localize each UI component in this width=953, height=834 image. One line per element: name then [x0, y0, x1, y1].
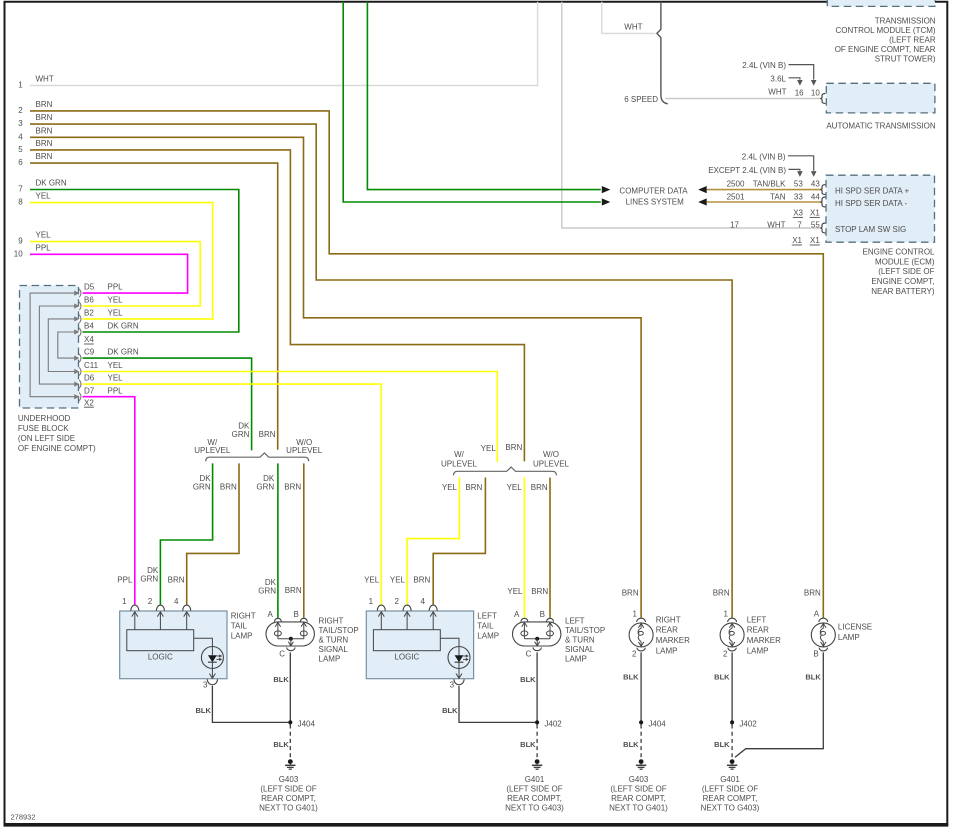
connector name X2 [84, 398, 94, 407]
svg-text:UPLEVEL: UPLEVEL [286, 446, 323, 455]
right tail lamp LED [201, 647, 223, 669]
label PPL (wire 10) [36, 243, 52, 252]
left tail/stop & turn signal lamp pin A label [514, 610, 520, 619]
svg-text:TAIL/STOP: TAIL/STOP [319, 626, 359, 635]
svg-text:YEL: YEL [507, 587, 523, 596]
label DK GRN at right tail/stop pin A [258, 578, 276, 595]
label BLK (license lamp) [805, 673, 821, 682]
svg-text:1: 1 [18, 81, 23, 90]
left rear marker lamp bottom connector [728, 648, 736, 651]
svg-text:2.4L (VIN B): 2.4L (VIN B) [742, 61, 786, 70]
svg-text:REAR COMPT,: REAR COMPT, [611, 794, 666, 803]
svg-text:33: 33 [794, 192, 803, 201]
svg-text:YEL: YEL [481, 444, 497, 453]
pin D7 wire PPL (to right tail lamp pin 1) [83, 397, 135, 605]
svg-text:LAMP: LAMP [231, 632, 253, 641]
svg-text:1: 1 [723, 610, 728, 619]
label STOP LAM SW SIG [835, 225, 906, 234]
pin B4 label [84, 322, 139, 331]
fuse block internal wire D5-D7 [30, 293, 76, 397]
wire 2500 TAN/BLK (hi spd ser data +) [707, 189, 823, 191]
wire BLK left tail/stop pin C to J402 [536, 652, 538, 722]
svg-text:6 SPEED: 6 SPEED [624, 95, 658, 104]
label BRN at right tail lamp pin 4 [168, 575, 185, 584]
svg-text:BRN: BRN [804, 588, 821, 597]
svg-text:TAIL/STOP: TAIL/STOP [565, 626, 605, 635]
svg-text:B4: B4 [84, 322, 94, 331]
label BRN below splice 2 (right) [531, 483, 548, 492]
left tail/stop & turn signal lamp junction dot [535, 637, 539, 641]
svg-text:BLK: BLK [623, 740, 639, 749]
label YEL below splice 2 (left) [442, 483, 458, 492]
svg-text:BRN: BRN [36, 113, 53, 122]
svg-text:MODULE (ECM): MODULE (ECM) [875, 257, 935, 266]
svg-text:1: 1 [632, 610, 637, 619]
pin D7 connector [74, 393, 81, 401]
svg-text:X1: X1 [792, 236, 802, 245]
right tail lamp wire logic to LED [194, 638, 213, 646]
pin D5 connector [74, 289, 81, 297]
svg-text:(ON LEFT SIDE: (ON LEFT SIDE [18, 434, 75, 443]
label HI SPD SER DATA - [835, 199, 907, 208]
svg-text:YEL: YEL [36, 231, 52, 240]
label G401 location [505, 775, 564, 813]
left tail lamp LED [448, 647, 470, 669]
svg-text:7: 7 [18, 185, 23, 194]
right tail lamp pin 2 label [148, 597, 153, 606]
svg-text:10: 10 [811, 88, 820, 97]
label YEL (wire 8) [36, 192, 52, 201]
label BRN above right rear marker lamp [622, 588, 639, 597]
splice J402 [535, 719, 562, 728]
label BLK (right tail/stop pin C) [273, 675, 289, 684]
svg-text:2501: 2501 [727, 192, 745, 201]
svg-text:GRN: GRN [256, 483, 274, 492]
svg-text:44: 44 [811, 192, 820, 201]
svg-text:3: 3 [18, 119, 23, 128]
svg-text:7: 7 [797, 220, 802, 229]
svg-text:J404: J404 [648, 719, 666, 728]
diagram number 278932 [11, 813, 36, 822]
right tail lamp LOGIC label [148, 653, 173, 662]
left tail/stop & turn signal lamp common bar [524, 638, 550, 640]
label BRN (wire 3) [36, 113, 53, 122]
left tail lamp pin 3 label [450, 680, 455, 689]
right rear marker lamp pin label top [632, 610, 637, 619]
left tail/stop & turn signal lamp pin B connector [547, 618, 554, 621]
svg-text:STOP LAM SW SIG: STOP LAM SW SIG [835, 225, 906, 234]
right tail lamp pin 2 internal wire [157, 611, 163, 629]
pin B4 connector [74, 328, 81, 336]
pin B2 label [84, 309, 123, 318]
svg-text:PPL: PPL [117, 575, 133, 584]
svg-text:LEFT: LEFT [747, 615, 767, 624]
svg-text:RIGHT: RIGHT [231, 611, 256, 620]
svg-text:2: 2 [18, 106, 23, 115]
right tail/stop & turn signal lamp body [266, 622, 314, 646]
license lamp top connector [819, 618, 828, 622]
label left rear marker lamp [747, 615, 781, 655]
label DK GRN (wire 7) [36, 179, 67, 188]
svg-text:BRN: BRN [36, 139, 53, 148]
node 8 label [18, 198, 23, 207]
svg-text:J404: J404 [298, 719, 316, 728]
svg-text:TAN: TAN [770, 192, 786, 201]
license lamp body [811, 623, 835, 647]
svg-text:1: 1 [122, 597, 127, 606]
label WHT (wire 1) [36, 75, 54, 84]
license lamp pin label bottom [813, 649, 818, 658]
svg-text:GRN: GRN [193, 483, 211, 492]
arrow from computer data lines (row 2) [698, 198, 707, 205]
pin B2 connector [74, 315, 81, 323]
right tail lamp pin 4 internal wire [184, 611, 190, 629]
right rear marker lamp pin label bottom [632, 649, 637, 658]
svg-text:LINES SYSTEM: LINES SYSTEM [626, 198, 685, 207]
pin C9 wire DK GRN (to splice 1) [83, 358, 252, 450]
labels circuit 17 WHT pins 7 55 [730, 220, 820, 229]
left tail lamp pin 3 connector [454, 679, 464, 684]
left tail/stop & turn signal lamp pin A bulb leg [521, 622, 528, 639]
svg-text:X4: X4 [84, 335, 94, 344]
svg-text:EXCEPT 2.4L (VIN B): EXCEPT 2.4L (VIN B) [708, 166, 786, 175]
wire BLK J402 to G401 (dashed) [536, 725, 538, 760]
right tail lamp pin 3 connector [207, 679, 217, 684]
splice J404 (rear) [639, 719, 666, 728]
pin C11 wire YEL (to splice 2) [83, 372, 498, 463]
svg-text:DK GRN: DK GRN [36, 179, 67, 188]
svg-text:C: C [279, 649, 285, 658]
label BRN at right tail/stop pin B [285, 586, 302, 595]
label BLK (left tail lamp pin 3) [442, 706, 458, 715]
callout 2.4L (VIN B) for ECM pin 43 [742, 153, 817, 177]
node 3 label [18, 119, 23, 128]
right tail lamp logic block [127, 630, 194, 651]
svg-text:C: C [526, 649, 532, 658]
svg-text:LICENSE: LICENSE [838, 623, 872, 632]
left rear marker lamp pin label top [723, 610, 728, 619]
svg-text:W/: W/ [454, 450, 465, 459]
svg-text:PPL: PPL [108, 386, 124, 395]
left rear marker lamp pin label bottom [723, 649, 728, 658]
left tail lamp logic block [373, 630, 440, 651]
svg-text:NEXT TO G403): NEXT TO G403) [701, 803, 760, 812]
fuse block internal wire B2-C11 [48, 319, 76, 372]
ground G403 [285, 759, 295, 769]
svg-text:RIGHT: RIGHT [319, 616, 344, 625]
wire BLK left rear marker pin 2 to J402 [731, 652, 733, 722]
svg-text:BRN: BRN [531, 587, 548, 596]
svg-text:ENGINE CONTROL: ENGINE CONTROL [862, 247, 935, 256]
label underhood fuse block location [18, 414, 96, 453]
svg-text:LAMP: LAMP [838, 633, 860, 642]
node 4 label [18, 132, 23, 141]
svg-text:(LEFT REAR: (LEFT REAR [889, 36, 936, 45]
right tail lamp pin 1 internal wire [132, 611, 138, 629]
right tail lamp box [120, 611, 227, 679]
svg-text:BLK: BLK [442, 706, 458, 715]
svg-text:REAR: REAR [656, 626, 678, 635]
svg-text:A: A [268, 610, 274, 619]
label BRN (wire 6) [36, 152, 53, 161]
label BRN below splice 1 (right) [284, 483, 301, 492]
left tail lamp box [366, 611, 473, 679]
left tail/stop & turn signal lamp pin C leg [535, 639, 540, 646]
node 6 label [18, 158, 23, 167]
label BLK (G403 lead) [273, 740, 289, 749]
left tail/stop & turn signal lamp pin B bulb leg [547, 622, 554, 639]
node 2 label [18, 106, 23, 115]
svg-text:REAR COMPT,: REAR COMPT, [507, 794, 562, 803]
svg-text:BLK: BLK [805, 673, 821, 682]
svg-text:53: 53 [794, 180, 803, 189]
svg-text:BLK: BLK [195, 706, 211, 715]
svg-text:BLK: BLK [714, 740, 730, 749]
svg-text:3: 3 [203, 680, 208, 689]
label W/ UPLEVEL (splice 2) [441, 450, 478, 468]
svg-text:BRN: BRN [285, 586, 302, 595]
wire 9 YEL (to fuse block B6) [30, 242, 200, 306]
left tail/stop & turn signal lamp body [513, 622, 561, 646]
svg-text:YEL: YEL [507, 483, 523, 492]
svg-text:D7: D7 [84, 386, 95, 395]
module box TCM (off-page sliver) [827, 0, 935, 6]
wire BRN splice2 to left tail lamp pin 4 [433, 478, 485, 605]
svg-text:(LEFT SIDE OF: (LEFT SIDE OF [260, 784, 316, 793]
svg-text:BRN: BRN [36, 126, 53, 135]
wire BLK left tail lamp pin 3 to J402 [459, 686, 535, 723]
svg-text:BRN: BRN [465, 483, 482, 492]
svg-text:FUSE BLOCK: FUSE BLOCK [18, 424, 69, 433]
label W/O UPLEVEL (splice 2) [533, 450, 570, 468]
label right tail lamp [231, 611, 256, 640]
label PPL at right tail lamp pin 1 [117, 575, 133, 584]
wire YEL splice2 to left tail lamp pin 2 [407, 478, 459, 605]
license lamp filament [820, 623, 826, 646]
svg-text:2.4L (VIN B): 2.4L (VIN B) [742, 153, 786, 162]
svg-text:BRN: BRN [713, 588, 730, 597]
svg-text:GRN: GRN [258, 586, 276, 595]
svg-text:BRN: BRN [413, 575, 430, 584]
arrow to computer data lines system (row 2) [602, 198, 611, 205]
right tail lamp pin 1 label [122, 597, 127, 606]
left rear marker lamp top connector [728, 618, 737, 622]
svg-text:COMPUTER DATA: COMPUTER DATA [619, 187, 688, 196]
right tail lamp pin 3 internal wire [209, 669, 215, 679]
svg-text:WHT: WHT [767, 220, 785, 229]
right tail/stop & turn signal lamp pin A label [268, 610, 274, 619]
right tail/stop & turn signal lamp pin C connector [287, 647, 295, 650]
label WHT (6 speed wire) [768, 88, 786, 97]
left tail lamp pin 4 internal wire [430, 611, 436, 629]
label BRN (wire 2) [36, 100, 53, 109]
pin 10 (automatic transmission) [811, 88, 820, 97]
pin D7 label [84, 386, 123, 395]
wire 5 BRN (feed to splice 2) [30, 150, 524, 462]
svg-text:X2: X2 [84, 398, 94, 407]
right rear marker lamp body [629, 623, 653, 647]
svg-text:3: 3 [450, 680, 455, 689]
svg-text:BRN: BRN [259, 430, 276, 439]
wire 17 WHT stop lamp switch signal (from top) [562, 2, 823, 228]
label BRN at left tail lamp pin 4 [413, 575, 430, 584]
left tail lamp pin 1 connector [377, 605, 385, 611]
left tail lamp pin 2 connector [403, 605, 411, 611]
svg-text:REAR: REAR [747, 626, 769, 635]
right tail/stop & turn signal lamp common bar [278, 638, 304, 640]
wire 3 BRN (feed to left rear marker lamp) [30, 124, 732, 618]
pin B6 connector [74, 302, 81, 310]
label BLK (right rear marker) [623, 673, 639, 682]
module box AUTOMATIC TRANSMISSION [826, 83, 935, 113]
svg-text:LAMP: LAMP [747, 646, 769, 655]
merge brace (WHT / 6 SPEED) [657, 2, 668, 104]
left tail lamp pin 2 internal wire [404, 611, 410, 629]
svg-text:G401: G401 [525, 775, 545, 784]
svg-text:X1: X1 [810, 236, 820, 245]
right tail lamp pin 4 label [174, 597, 179, 606]
svg-text:C9: C9 [84, 348, 95, 357]
left tail lamp pin 1 label [369, 597, 374, 606]
callout 3.6L for AT pin 16 [770, 74, 802, 85]
label BRN above splice 2 [505, 443, 522, 452]
left rear marker lamp body [720, 623, 744, 647]
label BLK (left rear marker) [714, 673, 730, 682]
svg-text:& TURN: & TURN [565, 635, 595, 644]
label W/ UPLEVEL (splice 1) [194, 438, 231, 455]
label BLK (rear G403 lead) [623, 740, 639, 749]
label DK GRN above splice 1 [232, 422, 250, 440]
svg-text:BRN: BRN [505, 443, 522, 452]
svg-text:B: B [813, 649, 818, 658]
label BRN above license lamp [804, 588, 821, 597]
svg-text:43: 43 [811, 180, 820, 189]
left tail lamp pin 4 connector [429, 605, 437, 611]
right tail lamp pin 1 connector [131, 605, 139, 611]
svg-text:4: 4 [421, 597, 426, 606]
label BLK (right tail lamp pin 3) [195, 706, 211, 715]
right tail lamp pin 3 label [203, 680, 208, 689]
pin D5 label [84, 283, 123, 292]
svg-text:BRN: BRN [36, 152, 53, 161]
svg-text:D5: D5 [84, 283, 95, 292]
svg-text:2: 2 [723, 649, 728, 658]
svg-text:NEXT TO G403): NEXT TO G403) [505, 803, 564, 812]
splice J404 [288, 719, 315, 728]
label TCM location text [835, 16, 936, 63]
label AUTOMATIC TRANSMISSION [826, 122, 936, 131]
wire WHT from top (to TCM merge brace) [602, 2, 656, 34]
svg-text:DK GRN: DK GRN [108, 322, 139, 331]
right tail/stop & turn signal lamp pin B bulb leg [300, 622, 307, 639]
wire DK GRN splice1 to right tail/stop lamp pin A [277, 463, 279, 618]
svg-text:PPL: PPL [36, 243, 52, 252]
wire DK GRN splice1 to right tail lamp pin 2 [160, 463, 212, 604]
svg-text:1: 1 [369, 597, 374, 606]
right tail/stop & turn signal lamp junction dot [289, 637, 293, 641]
svg-text:BRN: BRN [168, 575, 185, 584]
svg-text:B: B [293, 610, 298, 619]
svg-text:YEL: YEL [108, 296, 124, 305]
pin D6 label [84, 374, 123, 383]
wire BRN splice1 to right tail/stop lamp pin B [303, 463, 305, 618]
svg-text:LAMP: LAMP [656, 646, 678, 655]
svg-text:BRN: BRN [220, 483, 237, 492]
right tail lamp pin 2 connector [156, 605, 164, 611]
wire BLK right tail/stop pin C to J404 [289, 652, 291, 722]
svg-text:TRANSMISSION: TRANSMISSION [875, 16, 936, 25]
right rear marker lamp filament [638, 623, 644, 646]
svg-text:LAMP: LAMP [319, 654, 341, 663]
wire BRN splice1 to right tail lamp pin 4 [187, 463, 239, 604]
connector name X4 [84, 335, 94, 344]
svg-text:AUTOMATIC TRANSMISSION: AUTOMATIC TRANSMISSION [826, 122, 936, 131]
label G403 location [259, 775, 318, 813]
svg-text:4: 4 [18, 132, 23, 141]
svg-text:BLK: BLK [520, 740, 536, 749]
svg-text:NEXT TO G401): NEXT TO G401) [609, 803, 668, 812]
right tail/stop & turn signal lamp pin B label [293, 610, 298, 619]
svg-text:HI SPD SER DATA -: HI SPD SER DATA - [835, 199, 907, 208]
svg-text:BRN: BRN [284, 483, 301, 492]
right tail/stop & turn signal lamp pin C leg [288, 639, 293, 646]
label BRN (wire 5) [36, 139, 53, 148]
wire DK GRN serial data - (from top to computer data lines) [343, 2, 601, 202]
svg-text:G403: G403 [279, 775, 299, 784]
svg-text:10: 10 [14, 249, 23, 258]
wire 7 DK GRN (to fuse block B4) [30, 190, 239, 333]
svg-text:MARKER: MARKER [656, 636, 690, 645]
svg-text:D6: D6 [84, 374, 95, 383]
left tail lamp LOGIC label [394, 653, 419, 662]
wire 2 BRN (feed to license lamp) [30, 111, 823, 618]
wire BLK J404 to G403 (dashed) [289, 725, 291, 760]
svg-text:TAN/BLK: TAN/BLK [753, 180, 786, 189]
right tail/stop & turn signal lamp pin A bulb leg [274, 622, 281, 639]
node 10 label [14, 249, 23, 258]
wire 10 PPL (to fuse block D5) [30, 254, 188, 293]
svg-text:16: 16 [795, 88, 804, 97]
svg-text:B2: B2 [84, 309, 94, 318]
node 7 label [18, 185, 23, 194]
svg-text:LEFT: LEFT [565, 616, 585, 625]
label YEL above splice 2 [481, 444, 497, 453]
label BRN (wire 4) [36, 126, 53, 135]
left tail lamp pin 3 internal wire [456, 669, 462, 679]
wire BRN splice2 to left tail/stop lamp pin B [549, 478, 551, 618]
svg-text:LAMP: LAMP [477, 632, 499, 641]
svg-text:C11: C11 [84, 361, 99, 370]
svg-text:J402: J402 [544, 719, 562, 728]
label DK GRN below splice 1 (left) [193, 474, 211, 491]
svg-text:A: A [514, 610, 520, 619]
svg-text:BLK: BLK [520, 675, 536, 684]
svg-text:G403: G403 [629, 775, 649, 784]
arrow from computer data lines (row 1) [698, 186, 707, 193]
right tail lamp pin 4 connector [183, 605, 191, 611]
svg-text:RIGHT: RIGHT [656, 615, 681, 624]
svg-text:(LEFT SIDE OF: (LEFT SIDE OF [506, 784, 562, 793]
left tail/stop & turn signal lamp pin C label [526, 649, 532, 658]
svg-text:UPLEVEL: UPLEVEL [533, 459, 570, 468]
svg-text:LOGIC: LOGIC [148, 653, 173, 662]
svg-text:YEL: YEL [108, 374, 124, 383]
pin C9 connector [74, 354, 81, 362]
right tail/stop & turn signal lamp pin C label [279, 649, 285, 658]
fuse block internal wire B6-D6 [39, 306, 76, 384]
label BRN below splice 1 (left) [220, 483, 237, 492]
connector at ECM stop lam sw sig [820, 223, 825, 233]
